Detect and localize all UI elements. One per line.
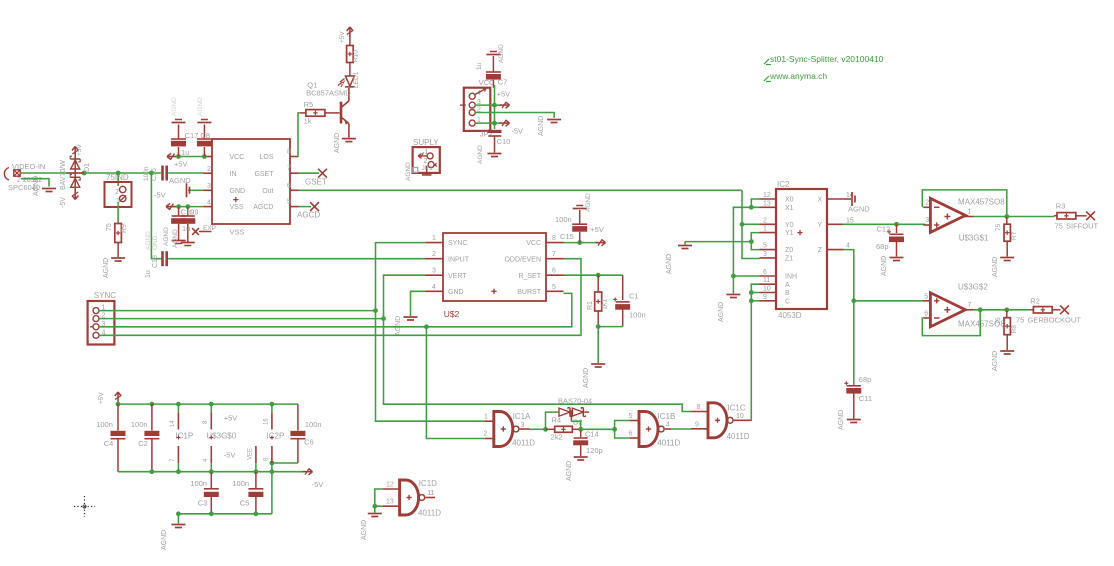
svg-text:AGND: AGND bbox=[163, 227, 170, 246]
connector X1 VIDEO-IN bbox=[4, 162, 45, 192]
supply +5V at U$2 VCC bbox=[590, 225, 605, 246]
svg-text:AGND: AGND bbox=[361, 520, 368, 540]
svg-text:R9: R9 bbox=[121, 224, 128, 233]
wire to IC1B.5 bbox=[615, 421, 630, 430]
wire INH to AGND bbox=[732, 276, 734, 294]
wire Z to C11 bbox=[853, 301, 855, 384]
svg-text:10: 10 bbox=[763, 286, 771, 293]
title text line 1 bbox=[764, 54, 884, 65]
svg-text:Z0: Z0 bbox=[785, 247, 793, 254]
supply +5V arrow JP2 bbox=[500, 102, 510, 108]
svg-text:11: 11 bbox=[763, 277, 770, 284]
svg-text:+5V: +5V bbox=[497, 90, 511, 99]
svg-text:IC2P: IC2P bbox=[267, 432, 285, 441]
junction Y1-Z0 bbox=[749, 239, 754, 244]
svg-text:IC1B: IC1B bbox=[658, 412, 676, 421]
svg-text:8: 8 bbox=[287, 149, 291, 156]
wire Y1-Z0 tie bbox=[751, 233, 759, 250]
wire R_SET bbox=[564, 274, 623, 276]
svg-text:Z1: Z1 bbox=[785, 256, 793, 263]
svg-text:B: B bbox=[785, 290, 790, 297]
capacitor C1 bbox=[613, 275, 645, 326]
svg-text:100n: 100n bbox=[629, 311, 646, 320]
wire SYNC1 to IC1A.1 bbox=[376, 311, 485, 422]
op-amp U$3G$1 MAX457SO8 bbox=[923, 198, 1005, 243]
svg-text:1: 1 bbox=[432, 235, 436, 242]
svg-text:C7: C7 bbox=[498, 78, 508, 87]
svg-text:68p: 68p bbox=[876, 242, 889, 251]
svg-text:C17 C8: C17 C8 bbox=[185, 131, 210, 140]
svg-text:D1: D1 bbox=[84, 163, 91, 172]
junction IC2 B bbox=[749, 290, 754, 295]
svg-text:+5V: +5V bbox=[98, 392, 105, 404]
svg-text:4: 4 bbox=[432, 284, 436, 291]
svg-text:68p: 68p bbox=[859, 375, 872, 384]
junction +5V rail x=271.9 bbox=[270, 402, 275, 407]
svg-text:INH: INH bbox=[785, 274, 797, 281]
svg-text:1u: 1u bbox=[476, 62, 483, 70]
junction AGND rail left bbox=[176, 511, 181, 516]
junctions VSS caps bbox=[176, 204, 190, 209]
svg-text:C2: C2 bbox=[138, 439, 148, 448]
svg-text:AGND: AGND bbox=[538, 116, 545, 136]
capacitor C3 bbox=[190, 472, 219, 514]
capacitor C19 bbox=[163, 207, 186, 246]
supply -5V arrow JP2 bbox=[500, 120, 510, 126]
svg-text:6: 6 bbox=[763, 269, 767, 276]
svg-text:2k2: 2k2 bbox=[551, 433, 563, 442]
svg-text:5: 5 bbox=[763, 243, 767, 250]
LED LED1 bbox=[338, 63, 360, 89]
svg-text:SUPLY: SUPLY bbox=[413, 138, 439, 147]
ground at Q1 emitter bbox=[334, 133, 356, 153]
wire out to R2 bbox=[1007, 309, 1031, 311]
label C17 C8 bbox=[181, 131, 210, 157]
svg-text:R10: R10 bbox=[353, 50, 360, 62]
svg-text:R7: R7 bbox=[1011, 231, 1018, 240]
supply -5V rail arrow bbox=[303, 469, 324, 490]
wire op-amp1 feedback bbox=[922, 190, 1007, 217]
svg-text:75: 75 bbox=[995, 223, 1002, 231]
wire LOS to R5 bbox=[298, 113, 300, 157]
capacitor C6 bbox=[290, 404, 321, 463]
svg-text:1u: 1u bbox=[182, 224, 190, 233]
resistor R1 bbox=[587, 275, 609, 326]
wire IC2P down bbox=[271, 463, 273, 514]
junction R_SET/R1 bbox=[596, 273, 601, 278]
wire Out long bbox=[299, 189, 743, 191]
wire VCC rail bbox=[170, 156, 204, 158]
svg-text:75: 75 bbox=[1055, 222, 1063, 231]
svg-text:C4: C4 bbox=[104, 439, 114, 448]
svg-text:100n: 100n bbox=[305, 420, 322, 429]
wire JP2 pin2 to AGND bbox=[475, 113, 554, 119]
svg-text:IC1D: IC1D bbox=[419, 479, 437, 488]
svg-text:C9: C9 bbox=[189, 208, 199, 217]
junction IC1A out bbox=[543, 427, 548, 432]
wire R1/C1 bottom bbox=[598, 326, 623, 328]
resistor R4 bbox=[546, 416, 581, 442]
pin AGCD no-connect bbox=[297, 202, 320, 219]
svg-text:SYNC: SYNC bbox=[94, 291, 116, 300]
svg-text:U$3G$2: U$3G$2 bbox=[958, 283, 988, 292]
svg-text:5: 5 bbox=[924, 294, 928, 301]
wire JP2 -5V bbox=[475, 123, 523, 135]
junction INH bbox=[731, 274, 736, 279]
wire to IC1B.6 bbox=[615, 429, 630, 438]
svg-text:AGND: AGND bbox=[103, 258, 110, 278]
junction op-amp2 out bbox=[1004, 307, 1009, 312]
wire SYNC3 BURST bbox=[99, 293, 572, 326]
svg-text:11: 11 bbox=[427, 490, 434, 497]
supply +5V above R10 bbox=[339, 27, 353, 43]
svg-text:R5: R5 bbox=[304, 100, 314, 109]
junction +5V rail x=211.3 bbox=[209, 402, 214, 407]
junction IC1D bbox=[372, 504, 377, 509]
capacitor C11 bbox=[838, 375, 872, 430]
junction op-amp2 feedback bbox=[978, 307, 983, 312]
svg-text:AGND: AGND bbox=[169, 176, 191, 185]
resistor R3 bbox=[1054, 202, 1087, 220]
svg-text:Z: Z bbox=[818, 247, 823, 254]
wire U$2 SYNC loop bbox=[376, 243, 426, 311]
wire Y to op-amp1 bbox=[844, 223, 926, 225]
svg-text:14: 14 bbox=[170, 420, 176, 427]
ground AGND INH bbox=[718, 295, 740, 323]
junction -5V rail x=211.3 bbox=[209, 469, 214, 474]
svg-text:13: 13 bbox=[386, 499, 394, 506]
svg-text:U$3G$1: U$3G$1 bbox=[959, 234, 989, 243]
svg-text:IN: IN bbox=[230, 171, 237, 178]
wire SYNC3 to IC1A.2 bbox=[426, 327, 484, 439]
junction IC2 C bbox=[749, 298, 754, 303]
wire Z to op-amp2 bbox=[854, 300, 926, 302]
wire U$2 VCC bbox=[564, 242, 599, 244]
wire op-amp1 out bbox=[974, 216, 1007, 218]
junction op-amp1 out bbox=[1004, 214, 1009, 219]
svg-text:3: 3 bbox=[521, 422, 525, 429]
svg-text:100n: 100n bbox=[555, 215, 572, 224]
wire SJ1 to R9 bbox=[117, 207, 119, 224]
svg-text:5: 5 bbox=[552, 284, 556, 291]
svg-text:-5V: -5V bbox=[511, 127, 523, 136]
svg-text:AGND: AGND bbox=[498, 44, 505, 63]
capacitor C5 bbox=[232, 472, 263, 514]
wire IC1D inputs tied bbox=[375, 489, 383, 506]
label GERBOCKOUT bbox=[1016, 316, 1081, 325]
junction R1 bottom bbox=[596, 324, 601, 329]
svg-text:AGND: AGND bbox=[171, 97, 178, 116]
svg-text:IC1C: IC1C bbox=[727, 404, 745, 413]
svg-text:AGCD: AGCD bbox=[297, 211, 320, 220]
wire Out vertical to Z1 bbox=[742, 190, 760, 258]
svg-text:4: 4 bbox=[207, 200, 211, 207]
label SIFFOUT bbox=[1055, 222, 1099, 231]
svg-text:+5V: +5V bbox=[174, 160, 188, 169]
junction C15 bbox=[577, 240, 582, 245]
wire op-amp2 feedback bbox=[922, 310, 980, 336]
svg-text:100n: 100n bbox=[96, 420, 113, 429]
svg-text:GSET: GSET bbox=[254, 171, 274, 178]
wire junction to C18 bbox=[151, 173, 161, 259]
svg-text:1: 1 bbox=[968, 209, 972, 216]
svg-text:VCC: VCC bbox=[230, 154, 245, 161]
svg-text:AGND: AGND bbox=[881, 256, 888, 276]
svg-text:1: 1 bbox=[763, 226, 767, 233]
svg-text:+5V: +5V bbox=[590, 225, 604, 234]
junction video/SJ1 bbox=[116, 171, 121, 176]
wire Z down bbox=[844, 250, 854, 301]
capacitor C18 bbox=[145, 231, 168, 278]
svg-text:100n: 100n bbox=[232, 479, 249, 488]
svg-text:3: 3 bbox=[763, 251, 767, 258]
junction R4/C14 bbox=[578, 427, 583, 432]
resistor R9 bbox=[106, 223, 128, 257]
wire SYNC2 to IC1C.8 bbox=[384, 319, 692, 412]
svg-text:JP1: JP1 bbox=[422, 165, 434, 172]
svg-text:2: 2 bbox=[925, 200, 929, 207]
wire X0-X1 tie bbox=[751, 199, 759, 207]
wire AGND to Y1-Z0 bbox=[685, 241, 751, 243]
wire C18 to U$2 INPUT bbox=[168, 258, 425, 260]
svg-text:SYNC: SYNC bbox=[448, 240, 467, 247]
connector JP1 SUPLY bbox=[405, 138, 440, 181]
junction JP2 -5V bbox=[492, 121, 497, 126]
svg-text:C3: C3 bbox=[198, 499, 208, 508]
svg-text:AGND: AGND bbox=[145, 231, 152, 250]
svg-text:C1: C1 bbox=[629, 292, 639, 301]
junction +5V rail x=118 bbox=[116, 402, 121, 407]
wire JP2 +5V bbox=[475, 90, 510, 106]
junction C12 bbox=[894, 222, 899, 227]
svg-text:8: 8 bbox=[552, 235, 556, 242]
wire to Y0 pin bbox=[742, 223, 760, 225]
ground AGND at X1 bbox=[33, 176, 56, 196]
wire IC1B out to IC1C.9 bbox=[671, 428, 691, 430]
ground AGND at X pin bbox=[844, 192, 871, 214]
wire X1 to INH bbox=[733, 207, 759, 276]
analog switch IC2 4053D bbox=[760, 180, 854, 320]
junction AGND rail x=211.3 bbox=[209, 511, 214, 516]
wire VSS rail bbox=[154, 191, 204, 207]
svg-text:AGND: AGND bbox=[566, 461, 573, 481]
svg-text:10: 10 bbox=[736, 413, 744, 420]
svg-text:AGND: AGND bbox=[838, 410, 845, 430]
junction video/C18 bbox=[149, 171, 154, 176]
capacitor C17 bbox=[171, 97, 186, 157]
ground AGND below R1 bbox=[583, 364, 605, 388]
svg-text:GERBOCKOUT: GERBOCKOUT bbox=[1028, 316, 1082, 325]
wire C16 to IN pin bbox=[168, 173, 203, 185]
svg-text:AGND: AGND bbox=[405, 162, 412, 181]
no-connect SIFFOUT bbox=[1086, 211, 1095, 220]
svg-text:X: X bbox=[817, 197, 822, 204]
wire IC1A out bbox=[530, 428, 546, 430]
svg-text:IC1A: IC1A bbox=[513, 412, 531, 421]
wire IC1D to AGND bbox=[374, 506, 376, 512]
junction JP2 +5V bbox=[492, 103, 497, 108]
wire +5V rail bbox=[118, 403, 298, 405]
junction Z node bbox=[851, 298, 856, 303]
svg-text:R8: R8 bbox=[1011, 325, 1018, 334]
connector SYNC bbox=[88, 291, 117, 345]
junction SYNC1 bbox=[373, 308, 378, 313]
svg-text:VSS: VSS bbox=[230, 228, 245, 237]
svg-text:R4: R4 bbox=[552, 416, 562, 425]
svg-text:AGND: AGND bbox=[172, 229, 179, 248]
svg-text:C: C bbox=[785, 298, 790, 305]
junction Out/Y0 bbox=[740, 222, 745, 227]
nand gate IC1B bbox=[629, 412, 681, 448]
svg-text:+5V: +5V bbox=[76, 144, 83, 156]
pin GSET no-connect bbox=[299, 169, 327, 187]
svg-text:LOS: LOS bbox=[259, 154, 273, 161]
svg-text:AGND: AGND bbox=[477, 145, 484, 164]
video amplifier IC bbox=[192, 139, 298, 237]
svg-text:GND: GND bbox=[230, 188, 246, 195]
wire -5V rail bbox=[118, 471, 305, 473]
nand gate IC1D bbox=[383, 479, 442, 518]
svg-text:EXP: EXP bbox=[203, 225, 216, 232]
svg-text:3: 3 bbox=[925, 217, 929, 224]
wire C6 bottom bbox=[272, 462, 298, 464]
sync separator U$2 bbox=[426, 233, 564, 301]
capacitor C9 bbox=[172, 207, 195, 248]
svg-text:7: 7 bbox=[287, 165, 291, 172]
svg-text:3: 3 bbox=[432, 268, 436, 275]
capacitor C12 bbox=[876, 224, 904, 276]
svg-text:2: 2 bbox=[432, 251, 436, 258]
svg-text:13: 13 bbox=[763, 200, 771, 207]
svg-text:1k1: 1k1 bbox=[602, 299, 609, 310]
junction SYNC3 bbox=[424, 324, 429, 329]
power pins U$3G$0 bbox=[203, 404, 237, 472]
svg-text:1: 1 bbox=[484, 414, 488, 421]
junction AGND rail x=255.9 bbox=[254, 511, 259, 516]
svg-text:C11: C11 bbox=[859, 394, 872, 403]
svg-text:+5V: +5V bbox=[339, 31, 346, 43]
jumper SJ1 75IND bbox=[105, 173, 132, 207]
svg-text:-5V: -5V bbox=[154, 191, 166, 200]
nand gate IC1A bbox=[484, 412, 536, 448]
svg-text:4053D: 4053D bbox=[778, 311, 802, 320]
capacitor C8 bbox=[197, 97, 212, 157]
svg-text:AGND: AGND bbox=[33, 176, 40, 196]
junction -5V rail x=255.9 bbox=[254, 469, 259, 474]
svg-text:1u: 1u bbox=[145, 270, 152, 278]
resistor R5 bbox=[300, 100, 340, 126]
junction +5V rail x=178.4 bbox=[176, 402, 181, 407]
svg-text:AGND: AGND bbox=[395, 316, 402, 336]
wire C7 down bbox=[494, 85, 496, 105]
svg-text:2: 2 bbox=[115, 189, 119, 196]
svg-text:LED1: LED1 bbox=[353, 71, 360, 88]
junction -5V rail x=178.4 bbox=[176, 469, 181, 474]
svg-text:75: 75 bbox=[106, 223, 113, 231]
wire AGND rail bbox=[178, 513, 272, 515]
label C19 C9 bbox=[181, 208, 199, 234]
power pins IC2P bbox=[248, 404, 285, 472]
svg-text:AGND: AGND bbox=[992, 257, 999, 277]
no-connect GERBOCKOUT bbox=[1060, 305, 1069, 314]
capacitor C15 bbox=[555, 193, 592, 243]
svg-text:15: 15 bbox=[846, 217, 854, 224]
ground AGND IC1D bbox=[361, 514, 382, 541]
resistor R10 bbox=[347, 37, 360, 63]
svg-text:Y0: Y0 bbox=[785, 222, 794, 229]
svg-text:8: 8 bbox=[697, 404, 701, 411]
resistor R2 bbox=[1030, 297, 1060, 314]
svg-text:2: 2 bbox=[484, 431, 488, 438]
junction -5V rail x=151.9 bbox=[150, 469, 155, 474]
svg-text:U$2: U$2 bbox=[444, 309, 460, 319]
svg-text:VSS: VSS bbox=[230, 204, 244, 211]
wire SYNC1 bbox=[99, 310, 376, 312]
svg-text:INPUT: INPUT bbox=[448, 256, 470, 263]
svg-text:4011D: 4011D bbox=[418, 509, 441, 518]
junction -5V rail x=271.9 bbox=[270, 469, 275, 474]
svg-text:BURST: BURST bbox=[517, 289, 541, 296]
wire U$2 VERT loop bbox=[384, 275, 426, 318]
svg-text:6: 6 bbox=[287, 182, 291, 189]
ground AGND mux bbox=[666, 242, 692, 274]
svg-text:SIFFOUT: SIFFOUT bbox=[1066, 222, 1098, 231]
wire to D2 bbox=[546, 412, 559, 429]
svg-text:R3: R3 bbox=[1056, 202, 1066, 211]
svg-text:7: 7 bbox=[968, 302, 972, 309]
svg-text:AGND: AGND bbox=[585, 193, 592, 212]
ground AGND right of JP2 bbox=[538, 116, 561, 136]
svg-text:R1: R1 bbox=[587, 301, 594, 310]
junction +5V rail x=151.9 bbox=[150, 402, 155, 407]
svg-text:MAX457SO8: MAX457SO8 bbox=[958, 198, 1005, 207]
junctions VCC caps bbox=[176, 154, 207, 159]
diode D2 BAS70-04 bbox=[558, 397, 592, 427]
junction X1 bbox=[749, 205, 754, 210]
svg-text:100n: 100n bbox=[143, 166, 150, 181]
svg-text:12: 12 bbox=[386, 482, 394, 489]
diode D1 BAV70/W bbox=[60, 144, 91, 208]
capacitor C14 bbox=[566, 429, 603, 481]
origin marker bbox=[74, 496, 95, 517]
svg-text:st01-Sync-Splitter, v20100410: st01-Sync-Splitter, v20100410 bbox=[770, 54, 884, 64]
svg-text:Y1: Y1 bbox=[785, 230, 794, 237]
svg-text:4: 4 bbox=[846, 243, 850, 250]
svg-text:4011D: 4011D bbox=[512, 439, 535, 448]
supply +5V rail arrow bbox=[98, 392, 121, 404]
svg-text:AGND: AGND bbox=[583, 368, 590, 388]
svg-text:9: 9 bbox=[695, 422, 699, 429]
svg-text:C15: C15 bbox=[560, 232, 574, 241]
svg-text:C18: C18 bbox=[152, 255, 159, 268]
svg-text:VEE: VEE bbox=[248, 448, 254, 460]
power pins IC1P bbox=[170, 404, 193, 472]
svg-text:IC2: IC2 bbox=[777, 180, 790, 189]
svg-text:12: 12 bbox=[763, 192, 771, 199]
wire U$2 GND bbox=[411, 291, 426, 316]
svg-text:75: 75 bbox=[1016, 316, 1024, 325]
capacitor C4 bbox=[96, 404, 125, 472]
svg-text:C6: C6 bbox=[304, 438, 314, 447]
svg-text:5: 5 bbox=[629, 413, 633, 420]
wire SYNC4 ODD/EVEN bbox=[99, 259, 581, 336]
resistor R8 bbox=[992, 310, 1018, 371]
capacitor C10 bbox=[477, 123, 510, 164]
svg-text:A: A bbox=[785, 282, 790, 289]
wire IC1C out to IC2 A bbox=[751, 284, 760, 420]
wire to IC2 B pin bbox=[751, 292, 759, 294]
svg-text:VERT: VERT bbox=[448, 273, 467, 280]
